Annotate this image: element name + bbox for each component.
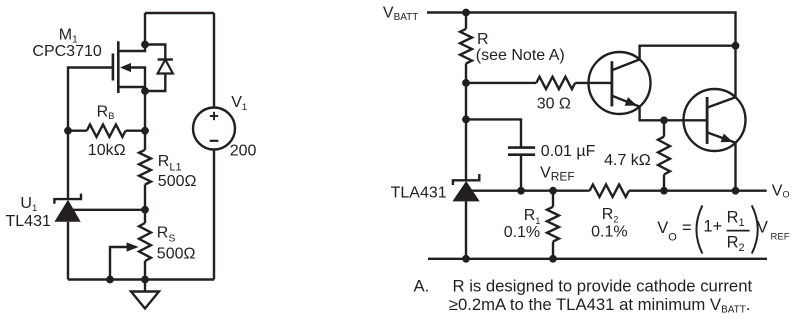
value 0.01 uF xyxy=(541,143,596,160)
svg-text:0.1%: 0.1% xyxy=(504,224,540,241)
svg-text:VO: VO xyxy=(772,182,790,199)
junction RB left xyxy=(64,127,72,135)
node VREF label xyxy=(540,164,575,183)
junction cap branch xyxy=(462,116,470,124)
wire to capacitor xyxy=(466,119,521,147)
wire gate to left rail xyxy=(68,68,113,131)
value 500 ohm RL1 xyxy=(158,173,197,190)
body diode of M1 xyxy=(145,45,173,92)
svg-text:RB: RB xyxy=(97,104,115,123)
transistor M1 (MOSFET) xyxy=(113,41,145,93)
voltage source V1 xyxy=(193,108,235,150)
junction R bottom xyxy=(462,79,470,87)
svg-text:CPC3710: CPC3710 xyxy=(32,43,101,60)
junction VBATT-R xyxy=(462,9,470,17)
wire M1 drain xyxy=(118,13,145,51)
svg-text:REF: REF xyxy=(771,231,790,242)
junction VREF node xyxy=(549,187,557,195)
shunt regulator TLA431 xyxy=(452,174,479,259)
label CPC3710 xyxy=(32,43,101,60)
svg-text:R: R xyxy=(477,31,489,48)
wire Q1 emitter xyxy=(640,107,708,121)
junction wiper-rail xyxy=(106,276,114,284)
label see Note A xyxy=(476,47,565,64)
svg-text:(see Note A): (see Note A) xyxy=(476,47,565,64)
junction divider node xyxy=(141,206,149,214)
wire U1 ref to divider node xyxy=(72,209,145,211)
value 200 xyxy=(230,143,257,160)
wire Q2 collector xyxy=(734,46,736,97)
value 0.1% R2 xyxy=(591,223,627,240)
svg-text:30 Ω: 30 Ω xyxy=(537,95,571,112)
svg-text:500Ω: 500Ω xyxy=(157,245,196,262)
svg-text:0.01 µF: 0.01 µF xyxy=(541,143,596,160)
shunt regulator U1 TL431 xyxy=(54,194,81,280)
note A text xyxy=(414,277,753,316)
junction Q2 emitter rail xyxy=(732,187,740,195)
resistor RS (rheostat) xyxy=(139,210,151,280)
resistor R1 xyxy=(547,191,559,259)
junction collector rail xyxy=(732,42,740,50)
junction cap bottom xyxy=(517,187,525,195)
wire Q1 collector xyxy=(640,46,736,60)
wire ground rail right xyxy=(428,258,767,260)
svg-text:VBATT: VBATT xyxy=(383,5,419,23)
resistor RL1 xyxy=(139,131,151,210)
svg-text:R: R xyxy=(727,208,739,226)
value 10k ohm xyxy=(88,142,126,159)
svg-text:V: V xyxy=(657,219,668,237)
svg-text:500Ω: 500Ω xyxy=(158,173,197,190)
value 500 ohm RS xyxy=(157,245,196,262)
equation VO = (1+R1/R2)VREF xyxy=(657,205,789,254)
label R2 xyxy=(602,206,619,225)
svg-text:1: 1 xyxy=(739,217,745,229)
label TL431 xyxy=(6,213,51,230)
label TLA431 xyxy=(391,184,447,201)
svg-text:200: 200 xyxy=(230,143,257,160)
svg-text:10kΩ: 10kΩ xyxy=(88,142,126,159)
capacitor 0.01uF xyxy=(508,148,535,191)
wire VREF rail xyxy=(470,189,590,191)
label R1 xyxy=(524,207,541,226)
wire top rail right xyxy=(427,13,736,46)
junction drain node xyxy=(141,41,149,49)
label VO xyxy=(772,182,790,199)
svg-text:U1: U1 xyxy=(20,195,37,214)
svg-text:V1: V1 xyxy=(231,94,247,113)
wire Q2 emitter xyxy=(734,143,736,191)
label M1 xyxy=(59,27,78,46)
label RB xyxy=(97,104,115,123)
svg-text:A.: A. xyxy=(414,277,430,296)
label V1 xyxy=(231,94,247,113)
wire source to RB node xyxy=(144,91,146,131)
svg-text:RL1: RL1 xyxy=(158,153,182,173)
svg-text:O: O xyxy=(668,232,677,244)
junction 4.7k bottom xyxy=(660,187,668,195)
svg-text:VREF: VREF xyxy=(540,164,575,183)
svg-text:TLA431: TLA431 xyxy=(391,184,447,201)
junction Q1e-4.7k xyxy=(660,116,668,124)
wire left rail to U1 xyxy=(67,131,69,199)
wire V1 bottom lead xyxy=(213,150,215,280)
label U1 xyxy=(20,195,37,214)
junction TLA431 anode xyxy=(462,255,470,263)
ground xyxy=(131,280,159,309)
transistor Q1 xyxy=(589,52,651,114)
resistor R2 xyxy=(590,185,629,197)
wire 30ohm to Q1 base xyxy=(575,82,612,84)
wire R to 30ohm xyxy=(466,82,536,84)
resistor R xyxy=(460,13,472,83)
resistor 4.7k xyxy=(658,120,670,190)
svg-text:≥0.2mA to the TLA431 at minimu: ≥0.2mA to the TLA431 at minimum VBATT. xyxy=(449,295,751,315)
svg-text:R is designed to provide catho: R is designed to provide cathode current xyxy=(453,277,753,296)
junction R1 bottom xyxy=(549,255,557,263)
svg-text:R1: R1 xyxy=(524,207,541,226)
wire top rail left xyxy=(145,12,214,14)
wire V1 top lead xyxy=(213,13,215,108)
wiper arrow of RS xyxy=(110,242,139,279)
value 0.1% R1 xyxy=(504,224,540,241)
svg-text:TL431: TL431 xyxy=(6,213,51,230)
label RL1 xyxy=(158,153,182,173)
wire cathode branch xyxy=(465,83,467,180)
wire bottom rail left xyxy=(68,278,214,280)
value 4.7k ohm xyxy=(604,152,651,169)
svg-text:R2: R2 xyxy=(602,206,619,225)
svg-text:1+: 1+ xyxy=(703,218,722,236)
label VBATT xyxy=(383,5,419,23)
resistor RB xyxy=(68,125,145,137)
label RS xyxy=(157,225,176,245)
value 30 ohm xyxy=(537,95,571,112)
junction RS bottom xyxy=(141,276,149,284)
junction RB right xyxy=(141,127,149,135)
label R xyxy=(477,31,489,48)
svg-text:0.1%: 0.1% xyxy=(591,223,627,240)
junction source node xyxy=(141,87,149,95)
resistor 30 ohm xyxy=(536,77,575,89)
svg-text:4.7 kΩ: 4.7 kΩ xyxy=(604,152,651,169)
svg-text:R: R xyxy=(727,234,739,252)
wire R2 to VO xyxy=(629,189,767,191)
svg-text:=: = xyxy=(682,219,692,237)
transistor Q2 xyxy=(684,89,746,151)
svg-text:V: V xyxy=(757,218,768,236)
svg-text:RS: RS xyxy=(157,225,176,245)
svg-text:2: 2 xyxy=(739,242,745,254)
